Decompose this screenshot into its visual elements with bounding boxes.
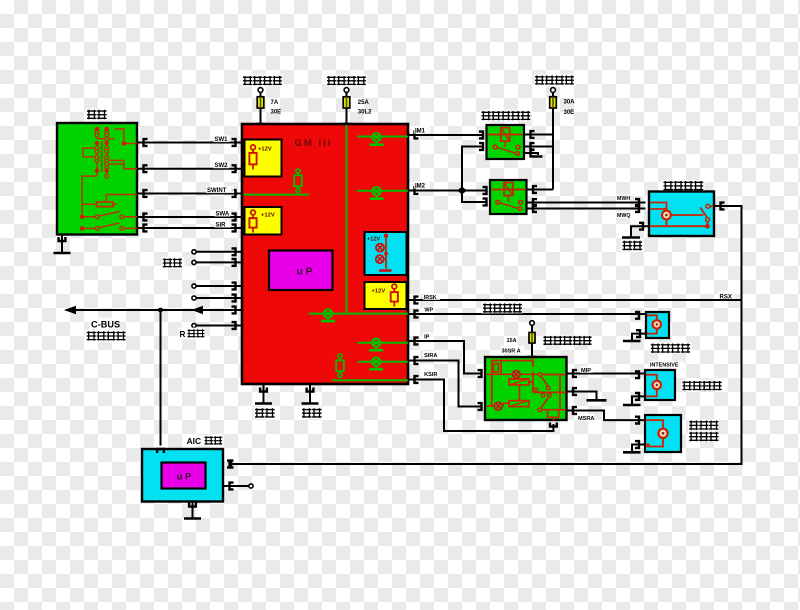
svg-text:7A: 7A [271, 100, 279, 106]
ground below AIC module [189, 503, 196, 507]
label AIC模组 [186, 435, 224, 446]
pin: C-BUS into AIC top [157, 449, 164, 453]
lamp L5 on SIRA line (green) [358, 361, 408, 363]
lamp L4 on IP line (green) [358, 342, 408, 344]
resistor R4 (green) on KSIR line [332, 379, 408, 381]
label SWINT [206, 186, 234, 193]
svg-text:30SR A: 30SR A [502, 348, 521, 354]
svg-text:WP: WP [424, 308, 433, 314]
relay module internal relays and lamps [487, 358, 566, 421]
svg-text:30A: 30A [564, 99, 576, 105]
wire SW2: wiper switch to GM module [137, 168, 242, 170]
label 资料传输 [85, 330, 126, 342]
label 永久电源 (fuse F3) [534, 75, 576, 87]
label MWQ [617, 212, 631, 219]
svg-text:MSRA: MSRA [578, 416, 594, 422]
label MSRA [577, 414, 594, 421]
wiper motor M1 internals [650, 203, 714, 227]
wire: fuse F3 bus to K1/K2 supply pins [524, 135, 553, 190]
svg-text:KSIR: KSIR [424, 372, 437, 378]
ground of headlamp washer pump [632, 445, 645, 452]
pin: fuse F1 to GM module [257, 124, 264, 128]
svg-text:30E: 30E [271, 110, 282, 116]
label IM1 [414, 126, 430, 134]
wire: fuse F3 down to relay bus [552, 108, 554, 190]
label SIR [215, 221, 231, 228]
label SIRA [423, 351, 440, 358]
wire IP: GM to relay module [408, 341, 482, 374]
+12V supply box A (yellow) with resistor R1 [245, 140, 282, 177]
label R端子 [179, 328, 205, 340]
label INTENSIVE [649, 361, 684, 368]
wire: +12V feed from fuse F2 (green vertical) [346, 125, 348, 314]
ground wire of wiper motor 搭铁 [631, 226, 649, 237]
node: IM2 junction [457, 187, 467, 195]
wire WP (permanent supply) to washer motor [408, 313, 646, 315]
+12V lamp box (cyan) with lamps L6 L7 [365, 232, 407, 275]
label 永久电源 (fuse F1) [242, 75, 283, 87]
label 喷水马达 [650, 342, 692, 353]
relay module K3 box [485, 357, 567, 420]
svg-text:+12V: +12V [372, 289, 386, 295]
wire IM1: GM to wiper relay K1 [408, 134, 483, 136]
washer pump M3 box 清洗泵浦 [645, 370, 675, 400]
wire MWH: relay K2 to wiper motor [527, 202, 646, 204]
label 15A [506, 336, 519, 343]
stub: AIC second output with terminal [223, 485, 249, 487]
wire IRSK: GM to RSX node [408, 299, 742, 301]
node: C-BUS junction to AIC [158, 308, 163, 313]
svg-text:+12V: +12V [367, 237, 380, 243]
ground pin 1 under GM module 搭铁 [260, 388, 267, 392]
wire SW1: wiper switch to GM module [137, 142, 242, 144]
wire SIRA: GM to relay module [408, 361, 482, 407]
wire SIR: wiper switch to GM module [137, 227, 242, 229]
pin: fuse F4 into relay module [529, 357, 536, 361]
ground pin 2 under GM module 搭铁 [307, 388, 314, 392]
svg-text:u P: u P [177, 472, 192, 483]
wire: relay K1 pin2 to relay K2 pin2 [462, 147, 487, 203]
svg-text:IP: IP [424, 334, 430, 340]
svg-text:30E: 30E [564, 110, 575, 116]
fuse F3 30A 30E with terminal [551, 88, 556, 93]
svg-text:R: R [180, 330, 186, 339]
label 车速 [162, 257, 185, 269]
+12V supply box C (yellow) with resistor R5 [365, 282, 407, 309]
label IP [423, 332, 434, 339]
ground of spray motor [632, 334, 646, 341]
svg-text:SIR: SIR [216, 222, 227, 228]
svg-text:AIC: AIC [187, 436, 201, 446]
wire MSRA: relay module to headlamp pump [567, 411, 646, 421]
label 搭铁 (GM gnd2) [301, 407, 323, 419]
wire RSX: wiper motor to AIC loop [231, 206, 742, 464]
svg-text:GM III: GM III [295, 138, 333, 149]
label MIP [580, 366, 593, 373]
label 清洗泵浦 [681, 380, 722, 391]
svg-text:MWH: MWH [617, 196, 630, 202]
svg-text:MIP: MIP [581, 368, 591, 374]
washer spray motor M2 box 喷水马达 [646, 312, 669, 338]
pin GM left SW rows + stubs 车速 [196, 251, 242, 253]
svg-text:30L2: 30L2 [358, 110, 372, 116]
label WP [424, 306, 436, 313]
fuse F4 15A 30SR A with terminal [530, 321, 535, 326]
label 搭铁 (motor gnd) [621, 240, 643, 252]
microprocessor uP U2 (GM module) [269, 251, 333, 291]
label 永久电源 (fuse F2) [326, 75, 367, 87]
wire: C-BUS drop to AIC module [160, 310, 162, 446]
wire C-BUS with direction arrows [66, 309, 242, 311]
svg-text:MWQ: MWQ [617, 213, 631, 219]
svg-text:IM1: IM1 [415, 129, 426, 135]
svg-text:+12V: +12V [261, 212, 275, 218]
wire MWQ: relay K2 to wiper motor [527, 208, 646, 210]
lamp L1 (IM1 driver, green) with ground bar [357, 136, 408, 138]
svg-text:+12V: +12V [258, 146, 272, 152]
svg-text:INTENSIVE: INTENSIVE [650, 363, 679, 369]
svg-text:SW2: SW2 [215, 163, 229, 169]
relay K1 coil and contacts [488, 134, 523, 136]
svg-text:IM2: IM2 [415, 184, 426, 190]
label IRSK [423, 293, 440, 300]
label SW1 [214, 135, 230, 142]
wire SWINT: wiper switch to GM module [137, 193, 242, 195]
label 雨刷马达 (wiper motor) [662, 180, 705, 191]
ground below wiper switch [59, 237, 66, 241]
resistor R3 (green) on SWINT line [296, 169, 300, 173]
svg-text:SWINT: SWINT [207, 188, 227, 194]
wire + lamp L3 on WP line (green) [309, 313, 408, 315]
wiper relay K2 box [490, 180, 527, 214]
label IM2 [414, 181, 430, 189]
fuse F2 25A 30L2 with terminal [344, 88, 349, 93]
lamp L2 (IM2 driver, green) with ground bar [357, 190, 408, 192]
pin: fuse F2 to GM module [343, 124, 350, 128]
wire KSIR: GM to relay module bottom pin [408, 380, 553, 432]
relay K2 coil and contacts [492, 189, 525, 191]
label 雨刷 (wiper switch) [86, 109, 112, 121]
svg-text:SWA: SWA [216, 211, 230, 217]
wiper switch internal contacts and wires [82, 129, 137, 229]
label RSX [719, 291, 735, 299]
label C-BUS [89, 318, 120, 330]
headlamp washer pump M4 box 头灯清洗泵浦 [645, 415, 681, 452]
svg-text:25A: 25A [358, 100, 370, 106]
label 30SR A [501, 346, 525, 354]
microprocessor uP U4 (AIC) [162, 463, 206, 489]
wiper switch S1 box [57, 123, 137, 235]
label SWA [215, 210, 231, 217]
svg-text:SW1: SW1 [215, 137, 229, 143]
wiper motor M1 box [649, 192, 714, 237]
label 雨刷继电器 (wiper relays) [480, 110, 530, 122]
label SW2 [214, 161, 230, 168]
wire: SWINT internal (green) [244, 194, 310, 196]
GM III body control module U1 [242, 124, 408, 384]
label 永久电源 (WP line) [482, 302, 523, 314]
svg-text:u P: u P [296, 266, 312, 278]
pin: AIC right output to RSX loop [230, 461, 234, 468]
wiper relay K1 box [487, 125, 525, 159]
ground of washer pump [632, 396, 645, 404]
svg-text:SIRA: SIRA [424, 353, 437, 359]
label MWH [617, 195, 631, 202]
label 搭铁 (GM gnd1) [254, 407, 276, 419]
wire R terminal stub [196, 325, 242, 327]
wire SWA: wiper switch to GM module [137, 216, 242, 218]
svg-text:IRSK: IRSK [424, 295, 437, 301]
label 头灯清 洗泵浦 [688, 419, 719, 442]
label KSIR [423, 370, 440, 377]
svg-text:C-BUS: C-BUS [91, 320, 120, 330]
AIC module U3 box [142, 449, 223, 502]
+12V supply box B (yellow) with resistor R2 [245, 207, 282, 235]
ground at relay K1 output [524, 153, 538, 155]
svg-text:15A: 15A [507, 338, 517, 344]
wire MIP: relay module to washer pump [567, 373, 646, 375]
fuse F1 7A 30E with terminal [258, 88, 263, 93]
label 继电器模组 (relay module) [542, 335, 592, 346]
ground at relay module middle pin [567, 392, 597, 400]
wire IM2: GM to wiper relay K2 [408, 190, 487, 192]
